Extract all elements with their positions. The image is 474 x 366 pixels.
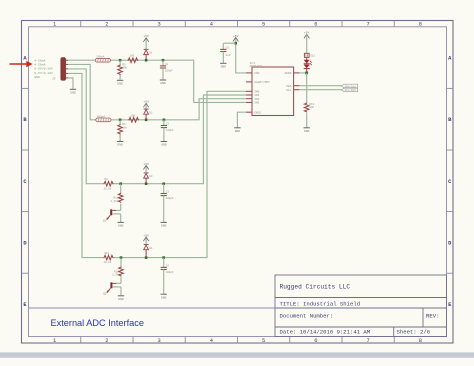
fuse F2 — [96, 115, 111, 121]
wire row4 main — [112, 91, 246, 257]
svg-text:GND2: GND2 — [254, 111, 261, 114]
svg-text:Q2: Q2 — [103, 293, 107, 296]
ground row1 resistor GND — [117, 80, 123, 85]
resistor R13 — [304, 103, 314, 128]
node row2 junction A — [119, 119, 122, 122]
wire ADDR net — [300, 72, 307, 74]
connector J5 — [52, 58, 68, 81]
frame column tick marks bottom — [81, 337, 395, 344]
wire pin3 vertical to row3 — [68, 69, 104, 184]
wire row3 main — [112, 95, 246, 184]
column numbers top — [53, 22, 422, 28]
node row3 junction B — [145, 182, 148, 185]
supply +5V row2 — [143, 101, 149, 109]
svg-text:GND: GND — [221, 65, 227, 68]
svg-text:8: 8 — [419, 338, 422, 344]
node row4 junction B — [145, 256, 148, 259]
svg-text:GND: GND — [118, 225, 124, 228]
node row2 junction B — [145, 119, 148, 122]
svg-text:Sheet: 2/6: Sheet: 2/6 — [397, 329, 431, 336]
node row1 junction A — [119, 59, 122, 62]
svg-text:C8: C8 — [226, 47, 230, 50]
supply +5V ADDR — [304, 32, 310, 54]
svg-text:5: 5 — [262, 22, 265, 28]
svg-text:500mA: 500mA — [97, 115, 105, 118]
svg-text:GND: GND — [117, 144, 123, 147]
svg-text:GND: GND — [161, 225, 167, 228]
pin GND2 — [246, 111, 261, 114]
svg-text:R10: R10 — [105, 252, 110, 255]
wire GND2 net — [237, 112, 246, 127]
svg-text:SCL/D19: SCL/D19 — [345, 88, 357, 92]
ground row2 resistor GND — [117, 142, 123, 147]
supply +5V VDD — [233, 35, 239, 43]
pin IN1 — [246, 94, 260, 97]
svg-text:100pF: 100pF — [166, 271, 174, 274]
supply +5V row1 — [143, 35, 149, 49]
svg-text:C3: C3 — [166, 191, 170, 194]
supply +5V row3 — [143, 163, 149, 173]
svg-text:+5V: +5V — [304, 32, 310, 35]
pin ALERT/RDY — [246, 80, 270, 84]
svg-text:2: 2 — [105, 338, 108, 344]
svg-text:1: 1 — [53, 22, 56, 28]
svg-text:D4: D4 — [149, 247, 153, 250]
capacitor C4 — [161, 258, 174, 294]
svg-text:100pF: 100pF — [165, 70, 173, 73]
pin SDA — [286, 85, 299, 88]
svg-text:C4: C4 — [166, 265, 170, 268]
svg-text:+5V: +5V — [233, 35, 239, 38]
ground row1 cap GND — [160, 80, 166, 85]
svg-text:+5V: +5V — [143, 35, 149, 38]
capacitor C1 — [160, 60, 173, 79]
svg-text:100: 100 — [130, 55, 135, 58]
svg-text:TITLE: Industrial Shield: TITLE: Industrial Shield — [280, 301, 361, 308]
wire ADDR to R13 — [306, 73, 308, 103]
ground row3 transistor GND — [118, 222, 124, 227]
svg-text:5: 5 — [262, 338, 265, 344]
svg-text:10.0k: 10.0k — [104, 186, 112, 190]
svg-text:C1: C1 — [165, 63, 169, 66]
node VDD junction — [234, 42, 237, 45]
pin IN2 — [246, 98, 260, 101]
svg-text:10k: 10k — [309, 105, 314, 109]
svg-text:IN2: IN2 — [254, 98, 259, 101]
capacitor C8 — [220, 43, 231, 63]
frame inner border — [29, 27, 447, 337]
svg-text:500mA: 500mA — [97, 56, 105, 59]
wire pin4 vertical to row4 — [68, 73, 104, 257]
svg-text:SCL: SCL — [286, 89, 291, 92]
svg-text:GND: GND — [160, 82, 166, 85]
svg-text:GND: GND — [161, 296, 167, 299]
frame row tick marks right — [447, 88, 454, 273]
node row1 junction C — [162, 59, 165, 62]
svg-text:GND: GND — [235, 130, 241, 133]
svg-text:7: 7 — [366, 22, 369, 28]
svg-text:4: 4 — [210, 22, 213, 28]
svg-text:100pF: 100pF — [166, 129, 174, 132]
node row1 junction B — [145, 59, 148, 62]
wire SCL — [300, 89, 342, 91]
svg-text:IN0: IN0 — [254, 91, 259, 94]
pin IN0 — [246, 91, 260, 94]
resistor R1 — [128, 55, 139, 63]
fuse F1 — [95, 56, 110, 62]
net flag SCL — [341, 88, 357, 92]
node row2 junction C — [163, 119, 166, 122]
ground row2 cap GND — [161, 142, 167, 147]
svg-text:GND: GND — [70, 91, 76, 94]
frame column tick marks top — [81, 21, 395, 27]
row letters left — [23, 56, 27, 308]
LED D5 arrows — [310, 61, 312, 65]
svg-text:7: 7 — [366, 338, 369, 344]
svg-text:D1: D1 — [149, 52, 153, 55]
column numbers bottom — [53, 338, 422, 344]
pin SCL — [286, 89, 299, 92]
svg-text:10k: 10k — [122, 125, 127, 129]
svg-text:2: 2 — [105, 22, 108, 28]
svg-text:VDD: VDD — [254, 72, 259, 75]
svg-text:GND: GND — [304, 130, 310, 133]
svg-text:External ADC Interface: External ADC Interface — [51, 318, 144, 328]
ground R13 GND — [304, 128, 310, 133]
node row4 junction C — [162, 256, 165, 259]
svg-text:100pF: 100pF — [166, 197, 174, 200]
svg-text:100: 100 — [130, 114, 135, 117]
ground C8 GND — [220, 63, 226, 68]
bottom window band — [0, 352, 474, 357]
wire VDD net — [236, 43, 246, 73]
frame row tick marks left — [22, 88, 29, 273]
solder jumper SJ1 — [304, 53, 315, 57]
svg-text:GND: GND — [118, 298, 124, 301]
svg-text:IN1: IN1 — [254, 94, 259, 97]
ground row3 cap GND — [161, 222, 167, 227]
LED D5 — [304, 57, 310, 63]
ground IC GND — [234, 128, 240, 133]
svg-text:Document Number:: Document Number: — [280, 313, 334, 320]
node row3 junction C — [162, 182, 165, 185]
wire row2 main — [111, 99, 246, 120]
resistor R9 — [104, 178, 114, 190]
svg-text:2.0k: 2.0k — [112, 273, 119, 277]
svg-text:+5V: +5V — [143, 101, 149, 104]
svg-text:1: 1 — [53, 338, 56, 344]
svg-text:4: 4 — [210, 338, 213, 344]
svg-text:10k: 10k — [122, 66, 127, 70]
diode D2 — [144, 109, 153, 120]
svg-text:IN3: IN3 — [254, 102, 259, 105]
sheet label separator line — [29, 307, 276, 309]
ground connector GND — [70, 89, 76, 94]
svg-text:R9: R9 — [105, 178, 109, 181]
svg-text:1uF: 1uF — [226, 54, 231, 57]
red annotation arrow — [10, 61, 33, 67]
pin IN3 — [246, 102, 260, 105]
diode D4 — [144, 245, 153, 258]
node row3 junction A — [119, 182, 122, 185]
svg-text:Q1: Q1 — [103, 220, 107, 223]
svg-text:+5V: +5V — [143, 234, 149, 237]
row letters right — [448, 56, 452, 308]
svg-text:GND: GND — [34, 75, 40, 79]
wire pin2 vertical to row2 — [68, 64, 96, 119]
svg-text:10.0k: 10.0k — [104, 260, 112, 264]
svg-text:D2: D2 — [149, 111, 153, 114]
svg-text:GND: GND — [117, 82, 123, 85]
capacitor C2 — [161, 120, 174, 141]
resistor R11 — [110, 184, 123, 211]
svg-text:J5: J5 — [52, 78, 56, 81]
svg-text:GND: GND — [161, 144, 167, 147]
svg-text:6: 6 — [314, 338, 317, 344]
svg-text:3: 3 — [157, 338, 160, 344]
svg-text:ALERT/RDY: ALERT/RDY — [254, 80, 270, 84]
resistor R5 — [118, 60, 128, 79]
wire pin1 to fuse F1 — [68, 59, 95, 61]
ground row4 cap GND — [161, 294, 167, 299]
diode D1 — [144, 49, 153, 60]
node row4 junction A — [120, 256, 123, 259]
node ADDR junction — [305, 72, 308, 75]
svg-text:C2: C2 — [166, 123, 170, 126]
resistor R2 — [128, 114, 139, 122]
svg-text:3: 3 — [157, 22, 160, 28]
wire row1 main — [109, 60, 246, 102]
svg-text:SJ1: SJ1 — [310, 55, 315, 58]
net flag SDA — [341, 84, 357, 88]
transistor Q2 — [103, 282, 121, 295]
op-amp U1 IC1 ADS1015 box — [250, 62, 294, 116]
supply +5V row4 — [143, 234, 149, 244]
svg-text:SDA: SDA — [286, 85, 291, 88]
svg-text:ADS1015: ADS1015 — [250, 65, 263, 68]
svg-text:ADDR: ADDR — [284, 72, 291, 75]
svg-text:REV:: REV: — [426, 313, 439, 320]
pin ADDR — [284, 72, 299, 75]
svg-text:8: 8 — [419, 22, 422, 28]
svg-text:6: 6 — [314, 22, 317, 28]
ground row4 transistor GND — [118, 296, 124, 301]
pin VDD — [246, 72, 260, 75]
capacitor C3 — [161, 184, 174, 222]
resistor R10 — [104, 252, 114, 264]
input description text block — [34, 58, 53, 79]
svg-text:D3: D3 — [149, 175, 153, 178]
diode D3 — [144, 173, 153, 184]
svg-text:Rugged Circuits LLC: Rugged Circuits LLC — [280, 284, 351, 291]
svg-text:4.02k: 4.02k — [110, 199, 118, 203]
wire pin5 to ground — [68, 78, 73, 89]
transistor Q1 — [103, 209, 121, 222]
svg-text:Date: 10/14/2016 9:21:41 AM: Date: 10/14/2016 9:21:41 AM — [280, 329, 371, 336]
svg-text:+5V: +5V — [143, 163, 149, 166]
resistor R6 — [118, 120, 128, 141]
svg-text:SDA/D18: SDA/D18 — [345, 84, 357, 88]
wire SDA — [300, 85, 342, 87]
wire VDD to C8 — [223, 42, 235, 44]
resistor R12 — [112, 258, 123, 284]
LED D6 — [304, 65, 310, 73]
title block outline — [275, 275, 447, 337]
